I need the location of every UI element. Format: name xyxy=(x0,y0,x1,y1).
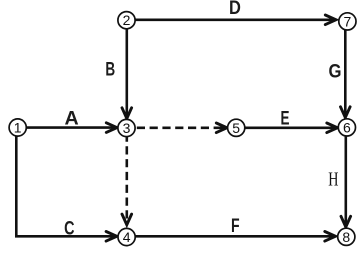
wire: edge A from node 1 to node 3 xyxy=(27,126,118,129)
svg-text:3: 3 xyxy=(123,120,131,136)
svg-text:2: 2 xyxy=(123,12,131,28)
wire: edge E from node 5 to node 6 xyxy=(245,127,338,130)
svg-text:B: B xyxy=(105,60,115,81)
svg-text:1: 1 xyxy=(14,120,22,136)
node 8 xyxy=(338,228,355,245)
svg-text:8: 8 xyxy=(342,229,350,245)
svg-text:A: A xyxy=(65,108,79,129)
wire: edge G from node 7 to node 6 xyxy=(344,30,347,118)
svg-text:5: 5 xyxy=(232,120,240,136)
wire: edge F from node 4 to node 8 xyxy=(136,235,336,238)
wire: dashed dummy from node 3 to node 5 xyxy=(220,127,228,130)
wire: edge B from node 2 to node 3 xyxy=(126,29,129,119)
svg-text:C: C xyxy=(64,218,75,239)
svg-text:G: G xyxy=(329,62,342,83)
svg-text:6: 6 xyxy=(343,119,351,135)
node 7 xyxy=(339,13,356,30)
node 6 xyxy=(338,119,355,136)
node 5 xyxy=(228,119,245,136)
svg-text:F: F xyxy=(231,216,240,237)
wire: edge H from node 6 to node 8 xyxy=(344,137,347,228)
svg-text:D: D xyxy=(229,0,241,19)
svg-text:7: 7 xyxy=(344,13,352,29)
node 1 xyxy=(9,119,26,136)
node 3 xyxy=(118,119,135,136)
svg-text:E: E xyxy=(281,108,290,129)
svg-text:H: H xyxy=(328,168,338,190)
node 4 xyxy=(118,228,135,245)
node 2 xyxy=(118,12,135,29)
svg-text:4: 4 xyxy=(123,229,131,245)
wire: edge C from node 1 to node 4 (down then right) xyxy=(16,137,117,237)
wire: dashed dummy from node 3 to node 4 xyxy=(126,137,129,225)
wire: edge D from node 2 to node 7 xyxy=(135,18,336,21)
